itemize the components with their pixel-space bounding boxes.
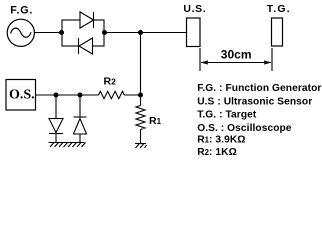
dimension double arrow 30cm	[201, 60, 271, 64]
ground (shared, under clamp diodes)	[49, 143, 86, 148]
wire loop of anti-parallel diode pair	[62, 20, 104, 46]
diode D4 (pointing up)	[74, 117, 87, 143]
svg-text:F.G. : Function Generator: F.G. : Function Generator	[197, 83, 321, 94]
wire node A down	[55, 95, 57, 119]
wire R1 to ground	[140, 130, 142, 144]
wire source to diode pair	[34, 32, 62, 34]
wire R2 to node C	[124, 94, 140, 96]
svg-text:O.S. : Oscilloscope: O.S. : Oscilloscope	[197, 123, 292, 134]
dimension extension line right	[271, 48, 273, 71]
node at R1/R2 branch	[138, 30, 143, 35]
node C (R1/R2 junction)	[138, 93, 143, 98]
diode D1 (top, pointing right)	[80, 12, 94, 28]
node right of diode pair	[102, 30, 107, 35]
node A (left clamp diode tap)	[54, 93, 59, 98]
node B (right clamp diode tap)	[78, 93, 83, 98]
svg-text:R1: R1	[149, 115, 162, 127]
svg-text:O.S.: O.S.	[9, 88, 35, 103]
legend text	[197, 83, 321, 158]
wire node C down to R1	[140, 95, 142, 106]
svg-text:U.S.: U.S.	[183, 3, 206, 15]
wire node down to R2/R1 junction	[140, 33, 142, 96]
wire O.S. to R2	[36, 94, 99, 96]
wire node B down	[79, 95, 81, 117]
diode D2 (bottom, pointing left)	[79, 38, 93, 54]
svg-text:R2: R2	[104, 76, 117, 88]
oscilloscope O.S. box	[6, 80, 36, 111]
resistor R1	[136, 106, 145, 130]
svg-text:R1: 3.9KΩ: R1: 3.9KΩ	[197, 135, 245, 146]
dimension extension line left	[199, 48, 201, 71]
svg-text:F.G.: F.G.	[10, 4, 33, 16]
ground (under R1)	[135, 144, 147, 149]
node left of diode pair	[59, 30, 64, 35]
ultrasonic sensor U.S. box	[187, 18, 201, 47]
svg-text:R2: 1KΩ: R2: 1KΩ	[197, 147, 237, 158]
wire diode pair to U.S. box	[104, 32, 187, 34]
svg-text:U.S : Ultrasonic Sensor: U.S : Ultrasonic Sensor	[197, 97, 312, 108]
resistor R2	[99, 91, 125, 98]
svg-text:T.G. : Target: T.G. : Target	[197, 110, 257, 121]
diode D3 (pointing down)	[49, 119, 63, 143]
function generator source symbol	[7, 19, 34, 46]
svg-text:T.G.: T.G.	[267, 3, 291, 15]
svg-text:30cm: 30cm	[221, 48, 252, 62]
target T.G. box	[272, 18, 283, 46]
